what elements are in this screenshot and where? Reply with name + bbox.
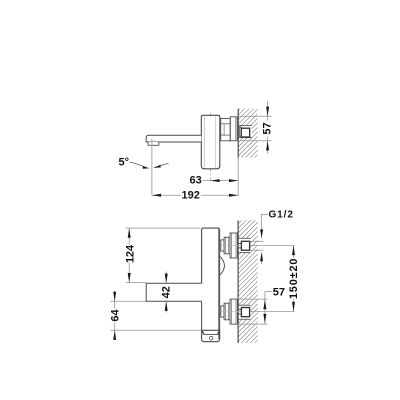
- svg-text:5°: 5°: [119, 157, 130, 169]
- dim 63 dimension line: [203, 180, 238, 182]
- dim 64 arrowheads: [113, 292, 116, 302]
- dim 192 dimension line: [152, 194, 181, 196]
- wall face line (top view): [237, 109, 239, 158]
- angle arrow left: [143, 166, 150, 169]
- body inner contour lines (top view): [203, 117, 205, 168]
- top fitting in-wall square end: [241, 241, 249, 250]
- dim 63 arrowheads: [210, 179, 219, 182]
- spout (bottom view): [146, 283, 201, 301]
- wall hatch (top view): [238, 109, 257, 158]
- dim 64 extension lines: [111, 300, 146, 302]
- bottom fitting stub pipe: [221, 306, 224, 317]
- body bottom cap: [202, 330, 220, 341]
- body (bottom view): [202, 228, 220, 339]
- dim 150+-20 arrowheads: [292, 246, 295, 256]
- svg-text:63: 63: [190, 174, 202, 186]
- top fitting escutcheon: [230, 233, 237, 258]
- escutcheon (top view): [230, 117, 237, 141]
- bottom fitting centerline: [220, 311, 295, 313]
- angle curve right: [155, 163, 169, 167]
- dim 64 dimension line: [114, 291, 116, 308]
- svg-text:64: 64: [110, 309, 122, 322]
- dim 42 arrowheads: [165, 274, 168, 284]
- dim 57 (bottom) arrowheads: [263, 300, 266, 310]
- top fitting in-wall plate lines: [238, 237, 250, 239]
- body centerline (top view): [209, 113, 211, 181]
- dim 57 (bottom) extension lines: [237, 298, 267, 300]
- dim 124 arrowheads: [128, 228, 131, 238]
- bottom fitting axis overlay: [221, 311, 242, 313]
- dim 57 (top view) arrowheads: [266, 107, 269, 117]
- svg-text:192: 192: [182, 190, 200, 202]
- bottom fitting nut: [224, 303, 230, 320]
- outlet circle under body: [210, 336, 213, 340]
- angle leader curve left: [130, 162, 147, 168]
- dim 57 (top view) dimension line: [267, 101, 269, 121]
- spout (top view): [146, 135, 201, 142]
- dim 42 dimension line: [165, 272, 167, 284]
- bottom fitting in-wall pipe: [238, 308, 241, 310]
- nut (top view): [221, 118, 231, 140]
- dim 57 (bottom) leader and dimension line: [265, 291, 273, 293]
- svg-text:150±20: 150±20: [288, 258, 300, 299]
- angle arrow right: [153, 165, 161, 168]
- svg-text:G1/2: G1/2: [269, 210, 294, 221]
- in-wall cap (top view): [239, 127, 241, 136]
- dim 57 (top view) extension lines: [237, 115, 272, 117]
- top fitting stub pipe: [221, 240, 224, 251]
- spout tip extension line: [151, 139, 153, 195]
- top fitting nut: [224, 237, 230, 254]
- aerator at spout tip: [148, 142, 159, 145]
- svg-text:57: 57: [262, 122, 274, 134]
- bottom fitting escutcheon: [230, 299, 237, 324]
- G1/2 leader upper: [261, 213, 268, 215]
- G1/2 extension lines: [250, 240, 264, 242]
- bottom fitting in-wall square end: [241, 308, 249, 317]
- top fitting in-wall pipe: [238, 243, 241, 245]
- in-wall connector plate lines (top view): [238, 126, 252, 138]
- bottom fitting in-wall plate lines: [238, 304, 250, 306]
- dim 124 extension lines: [126, 227, 201, 229]
- svg-text:57: 57: [273, 286, 285, 298]
- dim 124 dimension line: [128, 228, 130, 245]
- wall hatch (bottom view): [238, 220, 258, 343]
- svg-text:42: 42: [160, 286, 172, 298]
- dim 150+-20 dimension line: [293, 246, 295, 258]
- svg-text:124: 124: [125, 244, 137, 263]
- faucet body (top view): [201, 115, 220, 169]
- wall face line (bottom view): [237, 220, 239, 343]
- top fitting axis overlay: [221, 245, 242, 247]
- dim 192 arrowheads: [152, 194, 161, 197]
- handle bulge arc: [219, 256, 224, 276]
- wall face extension line down: [237, 158, 239, 197]
- top fitting centerline: [220, 245, 295, 247]
- in-wall square end (top view): [241, 128, 249, 137]
- G1/2 leader lower: [261, 253, 263, 265]
